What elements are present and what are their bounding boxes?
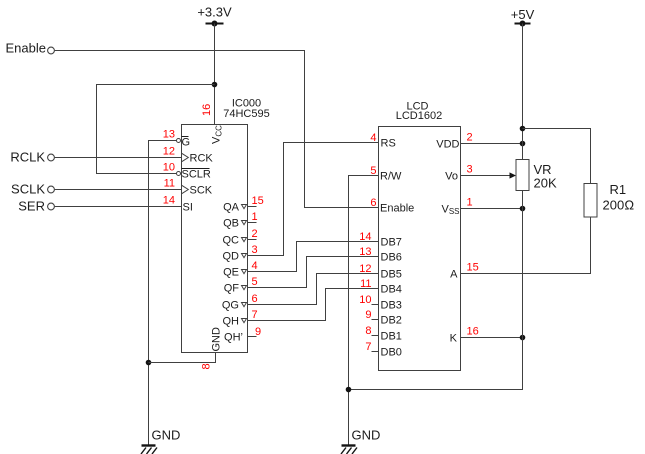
svg-text:SER: SER [18,199,45,214]
pin 15 QA [223,195,264,214]
svg-text:4: 4 [370,132,376,144]
wire SCLK to SCK [55,189,182,191]
svg-text:QA: QA [223,202,240,214]
wire VDD to +5V rail [461,143,523,145]
svg-text:SCLR: SCLR [182,169,211,181]
svg-text:3: 3 [467,164,473,176]
svg-text:SI: SI [183,202,193,214]
svg-text:6: 6 [252,293,258,305]
svg-text:RCLK: RCLK [10,150,45,165]
wire QD to RS [248,143,379,256]
svg-text:14: 14 [163,195,175,207]
svg-text:15: 15 [467,262,479,274]
wire Enable to LCD pin6 [55,51,379,208]
pin 12 RCK clock [163,146,214,165]
pin 9 DB2 stub [365,309,402,327]
svg-text:GND: GND [352,428,381,443]
wire A to R1 [461,217,591,274]
svg-text:9: 9 [255,326,261,338]
wire QG to DB5 [248,274,379,305]
svg-text:74HC595: 74HC595 [223,108,269,120]
svg-text:4: 4 [252,260,258,272]
svg-text:1: 1 [252,211,258,223]
node VDD junction [520,141,526,147]
wire GND pin8 [149,353,216,363]
pin 3 QD [223,244,258,263]
svg-text:8: 8 [201,363,213,369]
node SER terminal [18,199,54,214]
svg-text:8: 8 [365,325,371,337]
svg-text:3: 3 [252,244,258,256]
svg-text:SCK: SCK [190,185,213,197]
svg-text:VDD: VDD [436,139,459,151]
svg-text:+5V: +5V [511,7,535,22]
wire SCLR tie-high [97,85,215,174]
pin 9 QH' [224,326,261,344]
ground middle [341,428,380,454]
wire R1 branch [523,129,591,184]
svg-text:16: 16 [201,104,213,116]
svg-text:10: 10 [163,162,175,174]
wire QF to DB6 [248,257,379,288]
pin 13 DB6 [359,246,402,264]
pin 6 QG [222,293,258,312]
pin 6 Enable [370,197,414,215]
svg-text:LCD1602: LCD1602 [396,110,442,122]
svg-text:QH’: QH’ [224,332,243,344]
svg-text:9: 9 [365,309,371,321]
wire +3.3V rail to VCC pin16 [214,24,216,125]
wire QE to DB7 [248,242,379,272]
svg-text:7: 7 [365,341,371,353]
pin 4 RS [370,132,395,150]
wire Vss to rail [461,208,523,210]
pin 8 DB1 stub [365,325,402,343]
node SCLK terminal [11,182,54,197]
wire K to rail [461,337,523,339]
wire R/W to ground rail [349,176,379,445]
potentiometer VR 20K [516,160,557,191]
svg-text:2: 2 [467,132,473,144]
svg-text:RS: RS [381,138,396,150]
svg-text:K: K [450,333,458,345]
pin 7 QH [223,309,258,328]
wire QH to DB4 [248,289,379,321]
svg-text:QC: QC [223,235,240,247]
svg-text:2: 2 [252,228,258,240]
svg-text:RCK: RCK [190,153,214,165]
svg-text:20K: 20K [534,176,557,191]
svg-text:QD: QD [223,251,240,263]
svg-text:Vo: Vo [445,171,458,183]
resistor R1 200ohm [584,182,634,217]
pin 13 G bubble [163,129,190,149]
power +5V [511,7,535,27]
IC U1 IC000 74HC595 [182,98,270,353]
wire +5V rail to VR top [522,24,524,160]
svg-text:DB6: DB6 [381,252,402,264]
svg-text:A: A [450,269,458,281]
svg-text:R/W: R/W [380,171,402,183]
svg-text:11: 11 [164,178,175,190]
node Enable terminal [6,41,55,56]
node K junction [520,335,526,341]
svg-text:GND: GND [211,327,223,352]
svg-text:7: 7 [252,309,258,321]
pin 11 SCK clock [164,178,213,197]
pin 1 Vss [441,197,472,217]
wire RCLK to RCK [55,157,182,159]
svg-text:16: 16 [467,326,479,338]
svg-text:12: 12 [163,146,175,158]
node G/GND junction [146,360,152,366]
svg-text:QB: QB [223,218,239,230]
svg-text:DB3: DB3 [381,300,402,312]
svg-text:5: 5 [252,276,258,288]
pin 1 QB [223,211,258,230]
pin 2 QC [223,228,258,247]
pin 8 GND label [201,327,223,370]
pin 4 QE [223,260,258,279]
svg-text:SCLK: SCLK [11,182,45,197]
svg-text:DB1: DB1 [381,331,402,343]
pin 7 DB0 stub [365,341,402,359]
svg-text:DB7: DB7 [381,237,402,249]
pin 15 A [450,262,479,281]
node R1 branch junction [520,126,526,132]
svg-text:11: 11 [360,278,371,290]
pin 5 R/W [370,165,402,183]
svg-text:14: 14 [359,231,371,243]
svg-text:Enable: Enable [380,203,414,215]
svg-text:R1: R1 [610,182,627,197]
svg-text:QG: QG [222,300,239,312]
pin 5 QF [224,276,258,295]
svg-text:GND: GND [152,428,181,443]
pin 2 VDD [436,132,472,151]
svg-text:QH: QH [223,316,240,328]
svg-text:13: 13 [359,246,371,258]
IC U2 LCD LCD1602 [379,101,461,371]
svg-text:G: G [182,137,191,149]
svg-text:DB2: DB2 [381,315,402,327]
wire G pin13 to ground rail [149,141,177,445]
svg-text:DB4: DB4 [381,284,402,296]
node +3.3V/SCLR junction [212,82,218,88]
pin 3 Vo [445,164,472,183]
svg-text:QE: QE [223,267,239,279]
pin 14 DB7 [359,231,402,249]
svg-text:6: 6 [370,197,376,209]
power +3.3V [197,5,232,27]
pin 14 SI [163,195,193,214]
svg-text:1: 1 [467,197,473,209]
node bottom rail junction [346,387,352,393]
svg-text:200Ω: 200Ω [603,198,635,213]
pin 16 K [450,326,479,345]
wire VR bottom to bottom rail [349,191,523,390]
pin 16 VCC label [201,104,224,144]
pin 10 DB3 stub [359,294,402,312]
svg-text:Enable: Enable [6,41,46,56]
node RCLK terminal [10,150,54,165]
svg-text:DB0: DB0 [381,347,402,359]
wire Vo to VR wiper arrow [461,172,517,178]
ground left [141,428,180,454]
pin 12 DB5 [359,263,402,281]
node Vss junction [520,206,526,212]
svg-text:12: 12 [359,263,371,275]
svg-text:15: 15 [252,195,264,207]
pin 11 DB4 [360,278,402,296]
svg-text:+3.3V: +3.3V [197,5,232,20]
svg-text:QF: QF [224,283,240,295]
svg-text:DB5: DB5 [381,269,402,281]
wire SER to SI [55,206,182,208]
svg-text:10: 10 [359,294,371,306]
svg-text:13: 13 [163,129,175,141]
pin 10 SCLR bubble [163,162,211,181]
